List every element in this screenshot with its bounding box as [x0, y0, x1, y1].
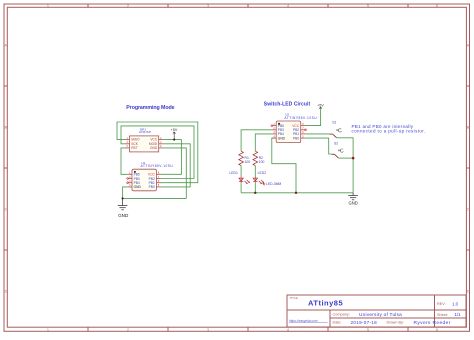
svg-text:connected to a pull-up resisto: connected to a pull-up resistor.: [352, 128, 426, 133]
svg-text:TITLE:: TITLE:: [290, 296, 299, 300]
svg-text:ATTINY85V-10SU: ATTINY85V-10SU: [141, 164, 174, 168]
svg-text:+5V: +5V: [171, 128, 178, 132]
svg-text:Company:: Company:: [333, 312, 350, 316]
svg-text:3: 3: [207, 328, 209, 332]
svg-text:AVRISP: AVRISP: [139, 130, 152, 134]
svg-text:3: 3: [207, 4, 209, 8]
svg-text:1: 1: [47, 4, 49, 8]
svg-text:Drawn By:: Drawn By:: [387, 321, 405, 325]
svg-text:PB0: PB0: [149, 185, 155, 189]
svg-text:LED-3MM: LED-3MM: [266, 182, 281, 186]
svg-text:1: 1: [47, 328, 49, 332]
svg-text:Ryvers Reeder: Ryvers Reeder: [414, 320, 451, 326]
svg-text:University of Tulsa: University of Tulsa: [359, 312, 402, 317]
svg-text:6: 6: [436, 328, 438, 332]
svg-text:+5V: +5V: [317, 103, 324, 107]
svg-text:Sheet:: Sheet:: [437, 313, 448, 317]
svg-text:S1: S1: [332, 121, 336, 125]
svg-text:GND: GND: [278, 136, 286, 140]
svg-text:GND: GND: [150, 146, 158, 150]
svg-text:GND: GND: [134, 185, 142, 189]
svg-text:PB0: PB0: [293, 136, 299, 140]
svg-text:RST: RST: [131, 146, 138, 150]
svg-text:S2: S2: [334, 142, 338, 146]
svg-text:2: 2: [127, 4, 129, 8]
svg-text:100: 100: [259, 160, 265, 164]
svg-text:100: 100: [245, 160, 251, 164]
svg-text:Date:: Date:: [333, 321, 342, 325]
svg-text:GND: GND: [348, 200, 357, 205]
svg-text:LED2: LED2: [258, 171, 267, 175]
svg-text:Switch-LED Circuit: Switch-LED Circuit: [264, 102, 311, 108]
svg-text:LED1: LED1: [229, 171, 238, 175]
svg-text:Programming Mode: Programming Mode: [126, 105, 174, 111]
svg-text:REV:: REV:: [437, 302, 446, 306]
svg-text:6: 6: [436, 4, 438, 8]
svg-text:2: 2: [127, 328, 129, 332]
svg-text:GND: GND: [118, 213, 129, 218]
svg-text:1.0: 1.0: [452, 301, 459, 306]
svg-text:2019-07-18: 2019-07-18: [351, 320, 378, 325]
svg-text:5: 5: [367, 328, 369, 332]
svg-text:4: 4: [287, 328, 289, 332]
svg-text:4: 4: [287, 4, 289, 8]
svg-text:1/1: 1/1: [455, 312, 462, 317]
svg-text:5: 5: [367, 4, 369, 8]
svg-text:ATTINY85V-10SU: ATTINY85V-10SU: [284, 116, 317, 120]
svg-text:ATtiny85: ATtiny85: [308, 298, 343, 307]
